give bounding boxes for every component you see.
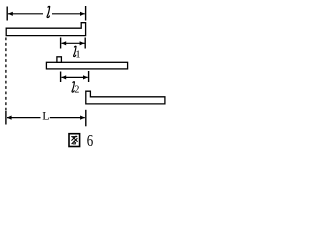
ruler 2 (middle ruler) <box>46 62 127 69</box>
dimension L: arrow line left segment <box>7 117 41 119</box>
dimension l1: left tick <box>60 38 62 49</box>
ruler 2 tab <box>57 57 62 63</box>
ruler 1 (top ruler with tab at right end) <box>6 23 85 36</box>
dimension l2: arrow line <box>62 76 88 78</box>
dimension L: left tick <box>5 111 7 125</box>
dashed reference line at left <box>5 38 7 111</box>
dimension L: right tick <box>85 110 87 127</box>
svg-text:6: 6 <box>87 133 93 150</box>
dimension l: arrow line left segment <box>8 13 43 15</box>
dimension l: left arrowhead <box>8 12 13 16</box>
dimension l1: arrow line <box>62 42 85 44</box>
svg-text:1: 1 <box>75 50 80 61</box>
dimension l2: left arrowhead <box>61 75 66 79</box>
dimension l: arrow line right segment <box>52 13 85 15</box>
dimension l2: right arrowhead <box>83 75 88 79</box>
dimension L: left arrowhead <box>7 116 12 120</box>
dimension l1: right arrowhead <box>80 41 85 45</box>
dimension l: left tick <box>6 7 8 21</box>
dimension l: right tick <box>85 6 87 21</box>
dimension l1: label l1 <box>74 46 76 56</box>
svg-text:2: 2 <box>74 84 79 95</box>
dimension l2: right tick <box>88 71 90 82</box>
dimension L: arrow line right segment <box>50 117 85 119</box>
caption: character tu (figure) drawn as path <box>69 134 80 147</box>
dimension l1: right tick <box>84 38 86 49</box>
dimension l2: label l2 <box>72 82 74 92</box>
dimension l: right arrowhead <box>80 12 85 16</box>
dimension l: label l <box>47 6 50 17</box>
dimension l1: left arrowhead <box>61 41 66 45</box>
dimension l2: left tick <box>60 72 62 83</box>
svg-text:L: L <box>42 109 49 123</box>
dimension L: right arrowhead <box>80 116 85 120</box>
ruler 3 (bottom ruler with tab at left end) <box>86 91 165 104</box>
